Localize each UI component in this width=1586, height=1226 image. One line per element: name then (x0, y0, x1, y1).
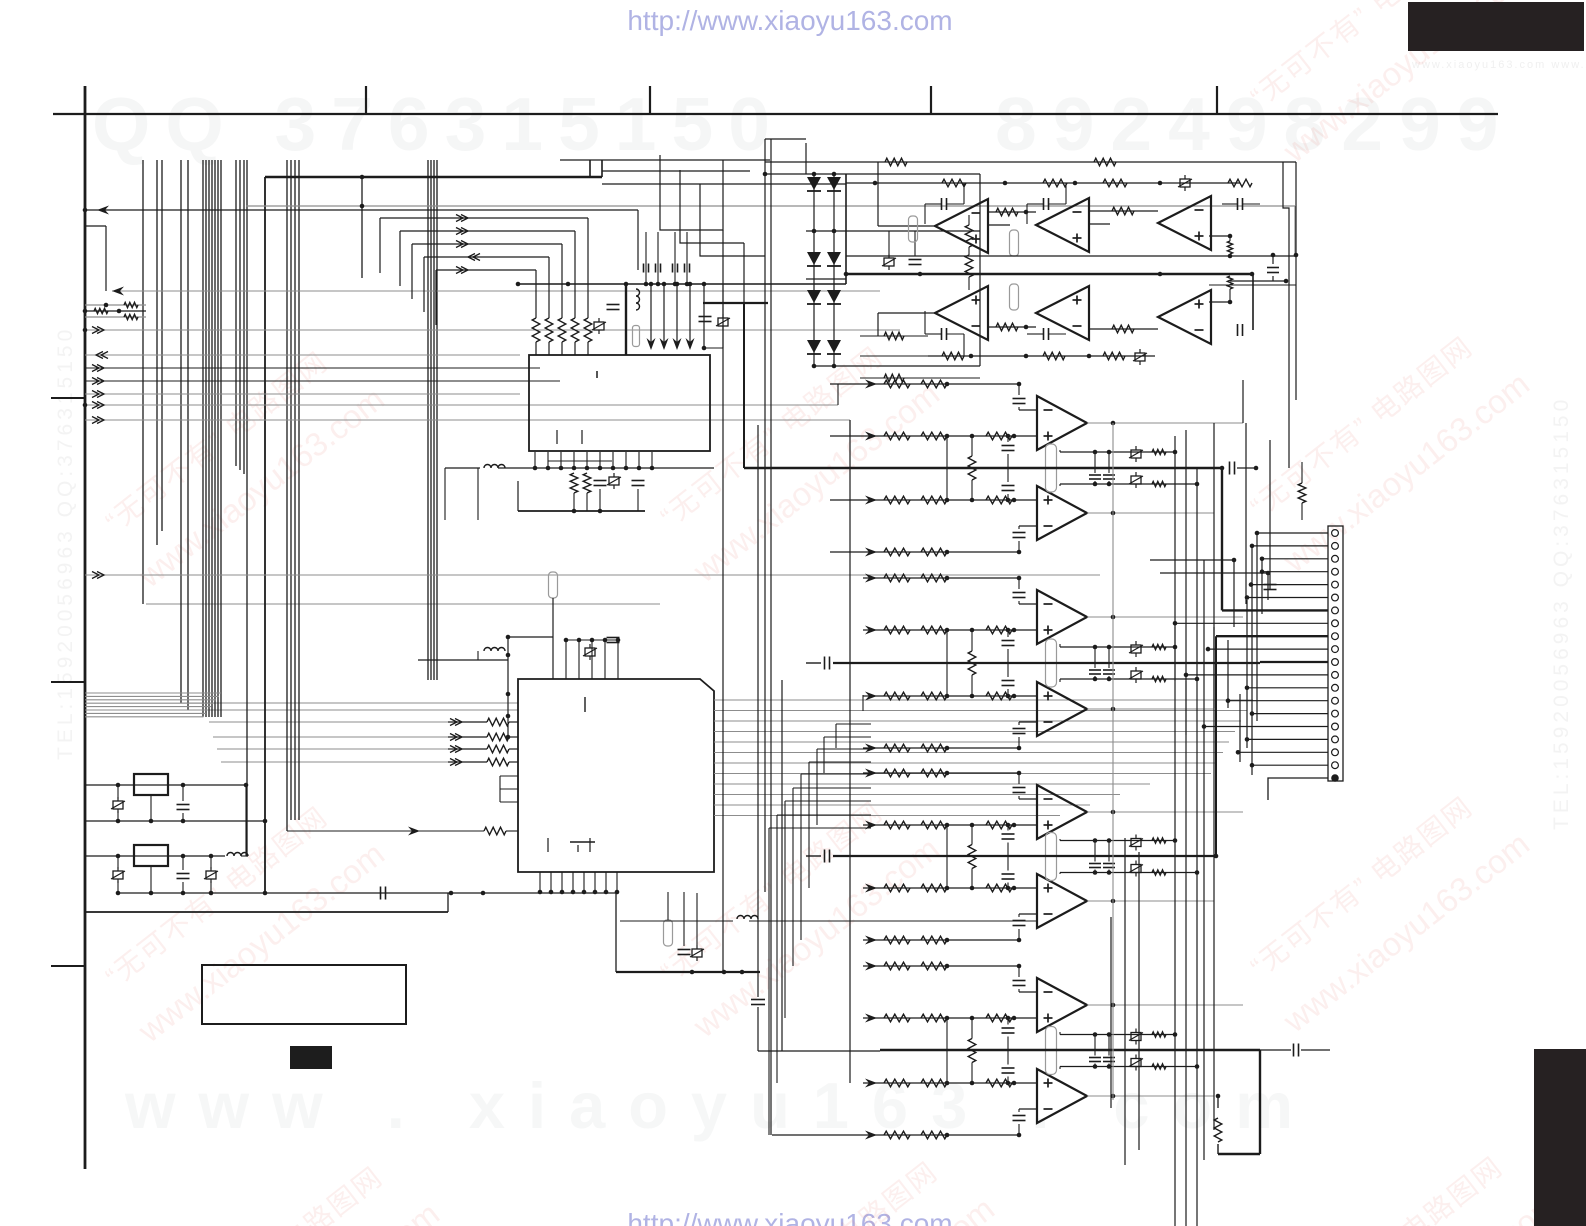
svg-text:www . xiaoyu163 . com: www . xiaoyu163 . com (124, 1069, 1316, 1142)
svg-text:QQ 376315150: QQ 376315150 (92, 82, 785, 166)
svg-text:http://www.xiaoyu163.com: http://www.xiaoyu163.com (627, 5, 952, 36)
svg-text:TEL:15920056963 QQ:376315150: TEL:15920056963 QQ:376315150 (1550, 396, 1573, 830)
svg-text:TEL:15920056963 QQ:376315150: TEL:15920056963 QQ:376315150 (54, 326, 77, 760)
